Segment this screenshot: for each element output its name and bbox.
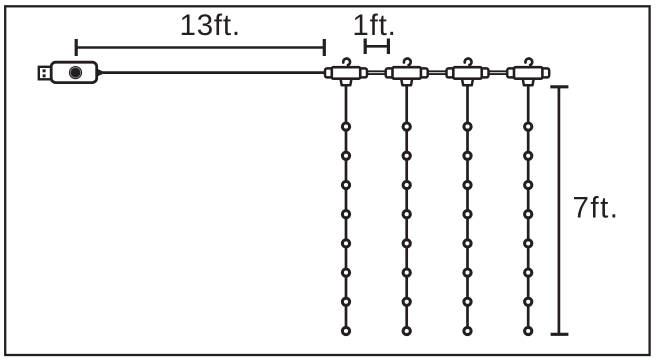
light bulbs on string 2 [403, 123, 410, 335]
clip right end cap (clip 3) [481, 68, 489, 77]
clip body (clip 2) [393, 67, 421, 79]
dimension line 1ft [365, 39, 388, 55]
clip right end cap (clip 1) [359, 68, 367, 77]
twin wire between clip 1 and clip 2 [365, 71, 388, 74]
USB button [69, 66, 82, 79]
wire taper from USB body [96, 68, 103, 77]
USB plug tip [39, 67, 52, 80]
dimension line 7ft [550, 87, 568, 334]
vertical light string 4 [527, 85, 530, 332]
USB controller body [51, 62, 96, 82]
clip hanger hook (clip 1) [343, 59, 350, 69]
light bulbs on string 3 [464, 123, 471, 335]
dimension line 13ft [76, 39, 324, 56]
clip hanger hook (clip 3) [465, 59, 472, 69]
clip left end cap (clip 3) [447, 68, 455, 77]
vertical light string 3 [466, 85, 469, 332]
clip body (clip 3) [453, 67, 481, 79]
clip bottom tab (clip 2) [401, 77, 413, 85]
twin wire between clip 2 and clip 3 [426, 71, 449, 74]
light bulbs on string 4 [525, 123, 532, 335]
clip left end cap (clip 1) [325, 68, 333, 77]
clip hanger hook (clip 2) [404, 59, 411, 69]
clip bottom tab (clip 4) [522, 77, 534, 85]
clip hanger hook (clip 4) [525, 59, 532, 69]
clip body (clip 1) [332, 67, 360, 79]
vertical light string 1 [345, 85, 348, 332]
clip bottom tab (clip 3) [462, 77, 474, 85]
clip left end cap (clip 4) [507, 68, 515, 77]
twin wire between clip 3 and clip 4 [487, 71, 510, 74]
svg-text:13ft.: 13ft. [179, 9, 240, 42]
clip right end cap (clip 2) [420, 68, 428, 77]
vertical light string 2 [405, 85, 408, 332]
clip bottom tab (clip 1) [340, 77, 352, 85]
clip left end cap (clip 2) [386, 68, 394, 77]
lead wire from USB to first clip [102, 71, 328, 74]
light bulbs on string 1 [342, 123, 349, 335]
svg-text:7ft.: 7ft. [573, 192, 620, 225]
clip right end cap (clip 4) [541, 68, 549, 77]
clip body (clip 4) [514, 67, 542, 79]
svg-text:1ft.: 1ft. [352, 9, 396, 42]
